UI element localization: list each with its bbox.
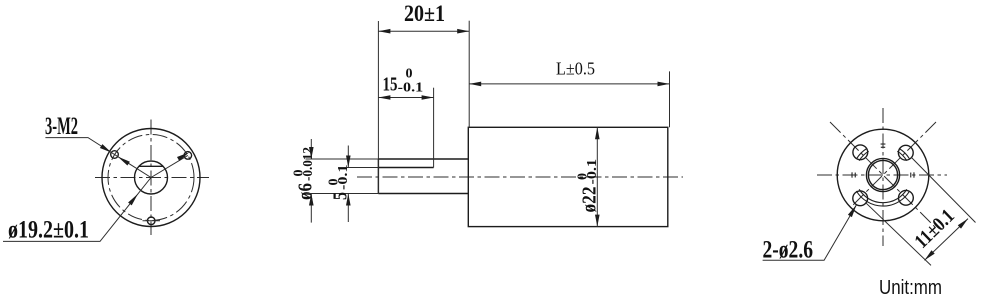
hole upper-left bbox=[853, 145, 868, 160]
leader 2-Ø2.6 underline and diagonal to lower-left hole bbox=[763, 205, 857, 261]
Ø6 dimension line top part bbox=[310, 139, 312, 159]
svg-text:15: 15 bbox=[383, 74, 398, 96]
label 3-M2 bbox=[45, 113, 78, 140]
left view center hole circle bbox=[135, 161, 168, 194]
svg-text:0: 0 bbox=[406, 67, 413, 82]
11±0.1 lower arrowhead bbox=[925, 250, 935, 260]
L left arrowhead bbox=[469, 82, 481, 87]
arrowhead inside pointing at hole from center side bbox=[118, 157, 130, 166]
left view vertical centerline bbox=[150, 120, 152, 236]
svg-text:-0.1: -0.1 bbox=[336, 165, 351, 191]
svg-text:ø6: ø6 bbox=[295, 183, 317, 200]
15 left arrowhead bbox=[378, 95, 390, 100]
leader line Ø19.2 underline and diagonal to center bbox=[3, 178, 151, 242]
flat extension line to left bbox=[344, 167, 379, 169]
svg-text:20±1: 20±1 bbox=[404, 1, 445, 26]
label 2-Ø2.6 bbox=[763, 237, 814, 264]
20±1 right arrowhead bbox=[457, 29, 469, 34]
right view horizontal centerline bbox=[817, 174, 947, 176]
right view diagonal centerline NW-SE bbox=[830, 122, 936, 228]
20±1 dimension line bbox=[378, 30, 469, 32]
left view outer circle (motor body) bbox=[102, 129, 200, 227]
arrowhead on 3-M2 leader at hole bbox=[100, 144, 111, 152]
svg-text:ø19.2±0.1: ø19.2±0.1 bbox=[8, 217, 89, 244]
gearbox body rectangle bbox=[468, 127, 668, 226]
shaft flat line with step bbox=[378, 167, 433, 169]
dimension Ø6 0/-0.012 (rotated) bbox=[292, 147, 317, 200]
extension line left of shaft (shared 20 and 15) bbox=[377, 21, 379, 194]
arrowhead 2-Ø2.6 at hole bbox=[848, 205, 857, 217]
dimension 15 0/-0.1 bbox=[383, 67, 424, 96]
Ø6 bottom arrowhead bbox=[309, 194, 314, 206]
15 dimension line bbox=[378, 97, 433, 99]
side view centerline bbox=[357, 176, 683, 178]
15 right arrowhead bbox=[422, 95, 434, 100]
svg-text:Unit:mm: Unit:mm bbox=[879, 277, 942, 299]
Ø6 top arrowhead bbox=[309, 147, 314, 159]
line from center to upper-right hole bbox=[151, 155, 188, 177]
svg-text:-0.012: -0.012 bbox=[301, 147, 316, 181]
right view outer circle bbox=[837, 129, 929, 221]
dimension L±0.5 bbox=[556, 59, 595, 79]
screw hole bottom bbox=[143, 217, 161, 225]
Ø6 dimension line bottom part bbox=[310, 194, 312, 223]
left view horizontal centerline bbox=[95, 177, 209, 179]
15 right extension line down to flat bbox=[433, 88, 435, 168]
right view vertical centerline bbox=[882, 108, 884, 246]
unit note bbox=[879, 277, 942, 299]
screw hole upper-left bbox=[111, 151, 119, 159]
Ø22 top arrowhead bbox=[595, 127, 600, 139]
shaft bottom edge extension to left bbox=[306, 193, 379, 195]
11±0.1 extension line from lower-left hole bbox=[866, 203, 931, 266]
right view inner ring circle (dash segments) bbox=[855, 147, 911, 203]
5 dimension line top part bbox=[347, 146, 349, 168]
L right arrowhead bbox=[658, 82, 670, 87]
svg-text:-0.1: -0.1 bbox=[398, 81, 424, 96]
dimension 20±1 bbox=[404, 1, 445, 26]
5 top arrowhead bbox=[346, 156, 351, 168]
shaft outline bbox=[378, 159, 468, 194]
dimension 5 0/-0.1 (rotated) bbox=[327, 165, 352, 201]
shaft top edge extension to left bbox=[306, 158, 379, 160]
arrowhead at upper-right hole pointing outward bbox=[177, 152, 189, 161]
5 bottom arrowhead bbox=[346, 194, 351, 206]
hole lower-right bbox=[899, 190, 914, 205]
left view bolt circle (dash-dot, Ø19.2) bbox=[108, 135, 194, 221]
20±1 left arrowhead bbox=[378, 29, 390, 34]
11±0.1 extension line from upper-right hole bbox=[912, 158, 976, 223]
Ø22 dimension line bbox=[596, 127, 598, 226]
11±0.1 upper arrowhead bbox=[958, 219, 968, 229]
right view boss inner circle bbox=[868, 160, 897, 189]
right view bolt circle ring (dash segments) bbox=[852, 144, 914, 206]
svg-text:2-ø2.6: 2-ø2.6 bbox=[763, 237, 814, 264]
hole upper-right bbox=[898, 145, 913, 160]
left view shaft flat chord bbox=[139, 165, 163, 167]
svg-text:3-M2: 3-M2 bbox=[45, 113, 78, 140]
dimension Ø22 0/-0.1 (rotated, inside body) bbox=[576, 159, 601, 213]
dimension text 11±0.1 rotated bbox=[910, 205, 958, 253]
extension line at gear face bbox=[468, 21, 470, 128]
arrowhead on Ø19.2 diagonal pointing up-right bbox=[128, 194, 138, 206]
right view diagonal centerline NE-SW bbox=[851, 122, 936, 207]
11±0.1 dimension line bbox=[925, 219, 969, 261]
screw hole upper-right bbox=[184, 152, 192, 160]
L dimension line bbox=[469, 83, 669, 85]
leader line 3-M2 underline and leader to upper-left hole bbox=[45, 138, 151, 178]
svg-text:11±0.1: 11±0.1 bbox=[910, 205, 958, 253]
right view boss outer circle bbox=[866, 158, 899, 191]
L right extension line bbox=[669, 71, 671, 127]
Ø22 bottom arrowhead bbox=[595, 215, 600, 227]
svg-text:L±0.5: L±0.5 bbox=[556, 59, 595, 79]
hole lower-left bbox=[853, 191, 868, 206]
5 dimension line bottom part bbox=[347, 194, 349, 223]
label Ø19.2±0.1 bbox=[8, 217, 89, 244]
